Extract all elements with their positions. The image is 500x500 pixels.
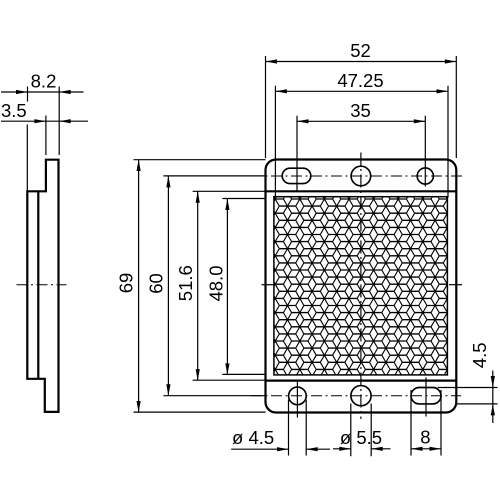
dimension 4.5 right line xyxy=(492,371,494,424)
dimension 51.6 extension lines xyxy=(193,191,266,380)
svg-text:52: 52 xyxy=(350,40,371,61)
top left slot xyxy=(282,168,311,183)
vertical centerline xyxy=(360,153,362,420)
svg-text:ø 4.5: ø 4.5 xyxy=(232,427,274,448)
top middle hole xyxy=(351,166,371,186)
dimension 69 line xyxy=(138,160,140,413)
dimension dia 4.5 arrows xyxy=(277,447,289,451)
front view body outline xyxy=(266,160,457,413)
dimension 48.0 line xyxy=(226,198,228,375)
dimension 3.5 line xyxy=(1,120,88,122)
dimension 35 line xyxy=(297,120,425,122)
side view plate front face line xyxy=(37,191,39,378)
dimension 69 extension lines xyxy=(134,160,266,412)
svg-text:ø 5.5: ø 5.5 xyxy=(340,427,382,448)
svg-text:8.2: 8.2 xyxy=(31,71,57,92)
front view top strip line xyxy=(266,190,457,192)
dimension 60 arrows xyxy=(166,176,170,188)
svg-text:69: 69 xyxy=(116,273,137,294)
reflector pattern border xyxy=(274,197,448,375)
svg-text:8: 8 xyxy=(420,427,430,448)
dimension 4.5 right extension lines xyxy=(438,388,498,404)
top holes centerline xyxy=(251,175,462,177)
svg-text:47.25: 47.25 xyxy=(337,70,383,91)
dimension 8.2 arrows xyxy=(16,90,28,94)
dimension 3.5 arrows xyxy=(34,119,46,123)
dimension 51.6 line xyxy=(197,191,199,380)
dimension 52 arrows xyxy=(266,59,278,63)
svg-text:35: 35 xyxy=(350,100,371,121)
dimension 60 line xyxy=(167,176,169,396)
dimension 48.0 extension lines xyxy=(222,199,265,375)
svg-text:4.5: 4.5 xyxy=(469,342,490,368)
dimension 4.5 right arrows xyxy=(491,376,495,388)
dimension 60 extension lines xyxy=(163,176,265,396)
dimension 47.25 extension lines xyxy=(275,86,448,198)
dimension 8.2 extension lines xyxy=(27,87,59,191)
svg-text:48.0: 48.0 xyxy=(205,265,226,301)
svg-text:3.5: 3.5 xyxy=(1,100,27,121)
dimension dia 4.5 extension lines xyxy=(289,400,307,456)
dimension 47.25 arrows xyxy=(275,89,287,93)
side view outline xyxy=(27,160,58,412)
svg-text:51.6: 51.6 xyxy=(175,265,196,301)
dimension 52 extension lines xyxy=(266,56,457,158)
mid height tick right xyxy=(449,284,462,286)
dimension 35 extension lines xyxy=(297,116,425,191)
dimension dia 5.5 extension lines xyxy=(351,404,371,457)
bottom right slot center tick xyxy=(425,378,427,417)
front view bottom strip line xyxy=(266,380,457,382)
dimension 35 arrows xyxy=(297,119,309,123)
bottom holes centerline xyxy=(251,395,461,397)
reflector honeycomb pattern horizontal lines xyxy=(255,185,456,384)
bottom left hole center tick xyxy=(296,380,298,418)
bottom left hole xyxy=(289,387,307,405)
dimension 8 extension lines xyxy=(411,390,441,456)
side view centerline xyxy=(17,284,67,286)
dimension 8 line xyxy=(411,448,441,450)
bottom right slot xyxy=(411,388,441,404)
dimension dia 5.5 line xyxy=(333,448,391,450)
svg-text:60: 60 xyxy=(145,273,166,294)
dimension dia 4.5 line xyxy=(231,448,330,450)
bottom middle hole xyxy=(351,386,371,406)
dimension 3.5 extension line xyxy=(45,116,47,156)
dimension 52 line xyxy=(266,61,457,63)
mid height tick left xyxy=(262,284,276,286)
dimension 48.0 arrows xyxy=(225,199,229,211)
dimension dia 5.5 arrows xyxy=(339,447,351,451)
reflector honeycomb pattern diagonal lines xyxy=(259,178,452,391)
dimension 8.2 line xyxy=(1,91,84,93)
top right hole xyxy=(417,168,433,184)
dimension 69 arrows xyxy=(137,160,141,172)
dimension 8 arrows xyxy=(411,447,423,451)
dimension 51.6 arrows xyxy=(196,191,200,203)
dimension 47.25 line xyxy=(275,90,448,92)
